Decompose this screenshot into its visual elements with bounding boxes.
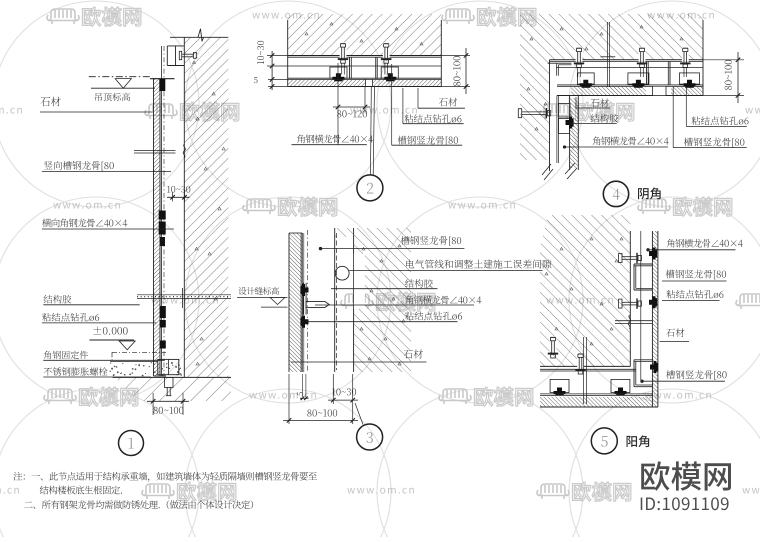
vertical channel lines	[160, 46, 162, 376]
right dim d4	[703, 59, 744, 61]
slab line2 d4	[556, 67, 703, 69]
circle 4 + txt	[603, 181, 628, 206]
caulk joint band	[137, 294, 231, 296]
floor bracket	[158, 359, 179, 374]
label 电气管线 d3	[406, 260, 551, 269]
leader to circle3	[355, 403, 363, 425]
bottom assembly d5	[540, 368, 636, 370]
boxes d4	[577, 73, 594, 84]
U channel d4	[646, 62, 648, 85]
ceiling stone d4	[571, 87, 646, 96]
label 不锈钢膨胀螺栓	[44, 367, 108, 375]
right dim 80~100 d2	[441, 55, 470, 57]
label 粘结点钻孔 d3	[405, 312, 462, 321]
mid joint	[134, 149, 176, 151]
circle 5 + txt	[591, 428, 617, 454]
angle assembly d3	[302, 283, 304, 315]
wall face lines d3	[334, 228, 336, 372]
bolts d2	[340, 43, 347, 58]
channel back line d5	[640, 231, 642, 380]
bolts d4	[576, 47, 583, 62]
dim 10~30 d1	[167, 186, 190, 193]
labels d5	[667, 239, 743, 248]
mid joint d5	[615, 320, 652, 322]
logo	[641, 461, 731, 490]
label 槽钢竖龙骨 bottom d5	[666, 370, 726, 380]
blobs d5	[649, 248, 657, 260]
detail 1 wall hatch	[184, 37, 228, 377]
horizontal bolts d5	[619, 254, 622, 263]
corner channel d5	[634, 359, 653, 361]
floor slab speckle	[110, 361, 158, 363]
stone strip d5 vertical	[652, 231, 658, 407]
ground hatch below floor	[115, 377, 231, 401]
stone panel detail1	[154, 78, 161, 376]
hidden angle dash rect	[112, 351, 166, 353]
label 槽钢竖龙骨 d3	[401, 236, 461, 246]
stone strip d2	[288, 80, 366, 87]
label 设计缝标高	[239, 287, 279, 295]
label 粘结点钻孔 d2	[402, 88, 404, 124]
slab bottom lines	[288, 55, 442, 57]
label 槽钢竖龙骨 d2	[391, 64, 393, 145]
label 角钢横龙骨 d2	[297, 135, 373, 144]
blob wall d4	[566, 117, 574, 129]
top channel blob	[159, 79, 165, 91]
U channel d2	[349, 57, 351, 79]
top bracket	[167, 45, 184, 47]
C channel d5	[634, 263, 652, 265]
top anchor bolt	[179, 51, 181, 59]
anchor below floor	[165, 377, 174, 387]
label 结构胶 d3	[405, 279, 433, 288]
omega blobs d4	[580, 80, 592, 88]
wall channel lines d4	[556, 96, 558, 164]
label 石材 d4	[575, 97, 577, 108]
bolts into wall d5	[550, 336, 557, 352]
label 石材 d2	[417, 88, 419, 108]
channel boxes d2	[330, 67, 347, 78]
label 结构胶 d1	[44, 295, 72, 304]
label 角钢横龙骨 d4	[593, 137, 669, 146]
center lines d5	[583, 337, 585, 404]
detail 5 wall hatch	[540, 215, 630, 366]
label 横向角钢龙骨	[42, 219, 127, 228]
label 石材 d3	[404, 349, 423, 358]
label 竖向槽钢龙骨	[44, 161, 114, 171]
circle 2	[357, 175, 383, 201]
level 0.000	[93, 326, 127, 334]
conduit circle	[335, 266, 349, 280]
horizontal bolt d4	[518, 109, 521, 118]
label 角钢横龙骨 d3	[405, 296, 481, 305]
bottom blobs d1	[160, 306, 166, 318]
label 槽钢竖龙骨 d4	[672, 87, 674, 148]
plate lines	[288, 77, 442, 79]
detail 3 stone	[289, 233, 302, 372]
floor line	[113, 376, 231, 378]
watermark logos	[47, 9, 79, 24]
label 粘结点钻孔 d1	[42, 313, 99, 322]
plate lines d4	[557, 84, 703, 86]
wall hatch d3	[335, 228, 411, 237]
leaders down to circle 2	[370, 87, 373, 175]
dim 80~100 d1	[152, 393, 154, 415]
detail 4 L hatch (wall+slab)	[520, 14, 703, 160]
label 石材 d1	[41, 97, 61, 107]
label 粘结点钻孔 d4	[685, 87, 687, 126]
watermark circles	[0, 1, 199, 207]
circle 1	[119, 431, 144, 456]
label 角钢固定件	[44, 351, 88, 359]
stone joint gap d4	[653, 87, 667, 96]
boxes wall d4	[559, 104, 571, 118]
wall break d4	[542, 164, 551, 175]
mid channel blobs	[159, 211, 166, 220]
ceiling level symbol	[89, 76, 153, 78]
dim 80~120	[337, 63, 339, 145]
notes	[14, 472, 317, 482]
circle 3	[357, 424, 383, 450]
corner angle d4	[548, 62, 572, 64]
black omega blobs d2	[332, 73, 344, 81]
left dims d2	[267, 55, 288, 57]
channel lines d3	[300, 233, 302, 372]
label 结构胶 d4	[591, 114, 619, 123]
conduit dashed d3	[336, 233, 338, 370]
dims d3	[301, 374, 303, 397]
wall stone d4	[570, 98, 579, 168]
detail 2 slab hatch	[288, 14, 442, 56]
